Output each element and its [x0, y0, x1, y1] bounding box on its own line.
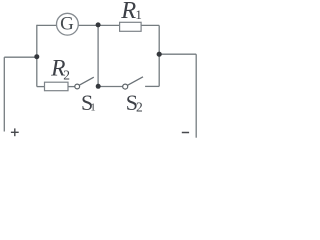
- wire S2 right terminal to right vertical: [145, 85, 159, 87]
- svg-text:G: G: [60, 14, 74, 35]
- wire top run: left corner to R1 corner: [37, 24, 159, 26]
- junction node: right branch: [157, 52, 162, 57]
- switch S1 pivot contact: [75, 84, 80, 89]
- galvanometer G body: [57, 13, 79, 35]
- wire left vertical: top corner down to R2 row: [36, 25, 38, 87]
- switch S1 lever (open): [80, 77, 94, 85]
- battery positive terminal label +: [11, 128, 19, 136]
- svg-text:1: 1: [135, 7, 142, 22]
- svg-text:2: 2: [136, 99, 143, 114]
- junction node: left branch to battery rail: [34, 54, 39, 59]
- junction node: S1 right terminal: [96, 84, 101, 89]
- resistor R2 body: [45, 82, 69, 91]
- junction node: top wire to middle branch: [96, 22, 101, 27]
- wire from right node to right rail: [159, 53, 196, 55]
- resistor R1 body: [120, 22, 142, 31]
- svg-text:2: 2: [63, 67, 70, 82]
- svg-text:R: R: [120, 0, 136, 24]
- wire from left node to left rail: [4, 56, 37, 58]
- wire left rail down to battery positive terminal: [3, 57, 5, 131]
- switch S2 pivot contact: [123, 84, 128, 89]
- wire middle vertical: top node down to S1 right terminal: [97, 25, 99, 86]
- wire S1 right terminal to S2 pivot: [98, 86, 123, 88]
- battery negative terminal label -: [182, 132, 189, 134]
- switch S2 lever (open): [128, 77, 143, 85]
- svg-text:1: 1: [90, 102, 96, 114]
- wire right rail down to battery negative terminal: [195, 54, 197, 138]
- wire right vertical: R1 corner down to S2 branch: [158, 25, 160, 86]
- wire R2 to S1 pivot: [68, 86, 75, 88]
- wire R2 row: left corner into R2: [37, 86, 46, 88]
